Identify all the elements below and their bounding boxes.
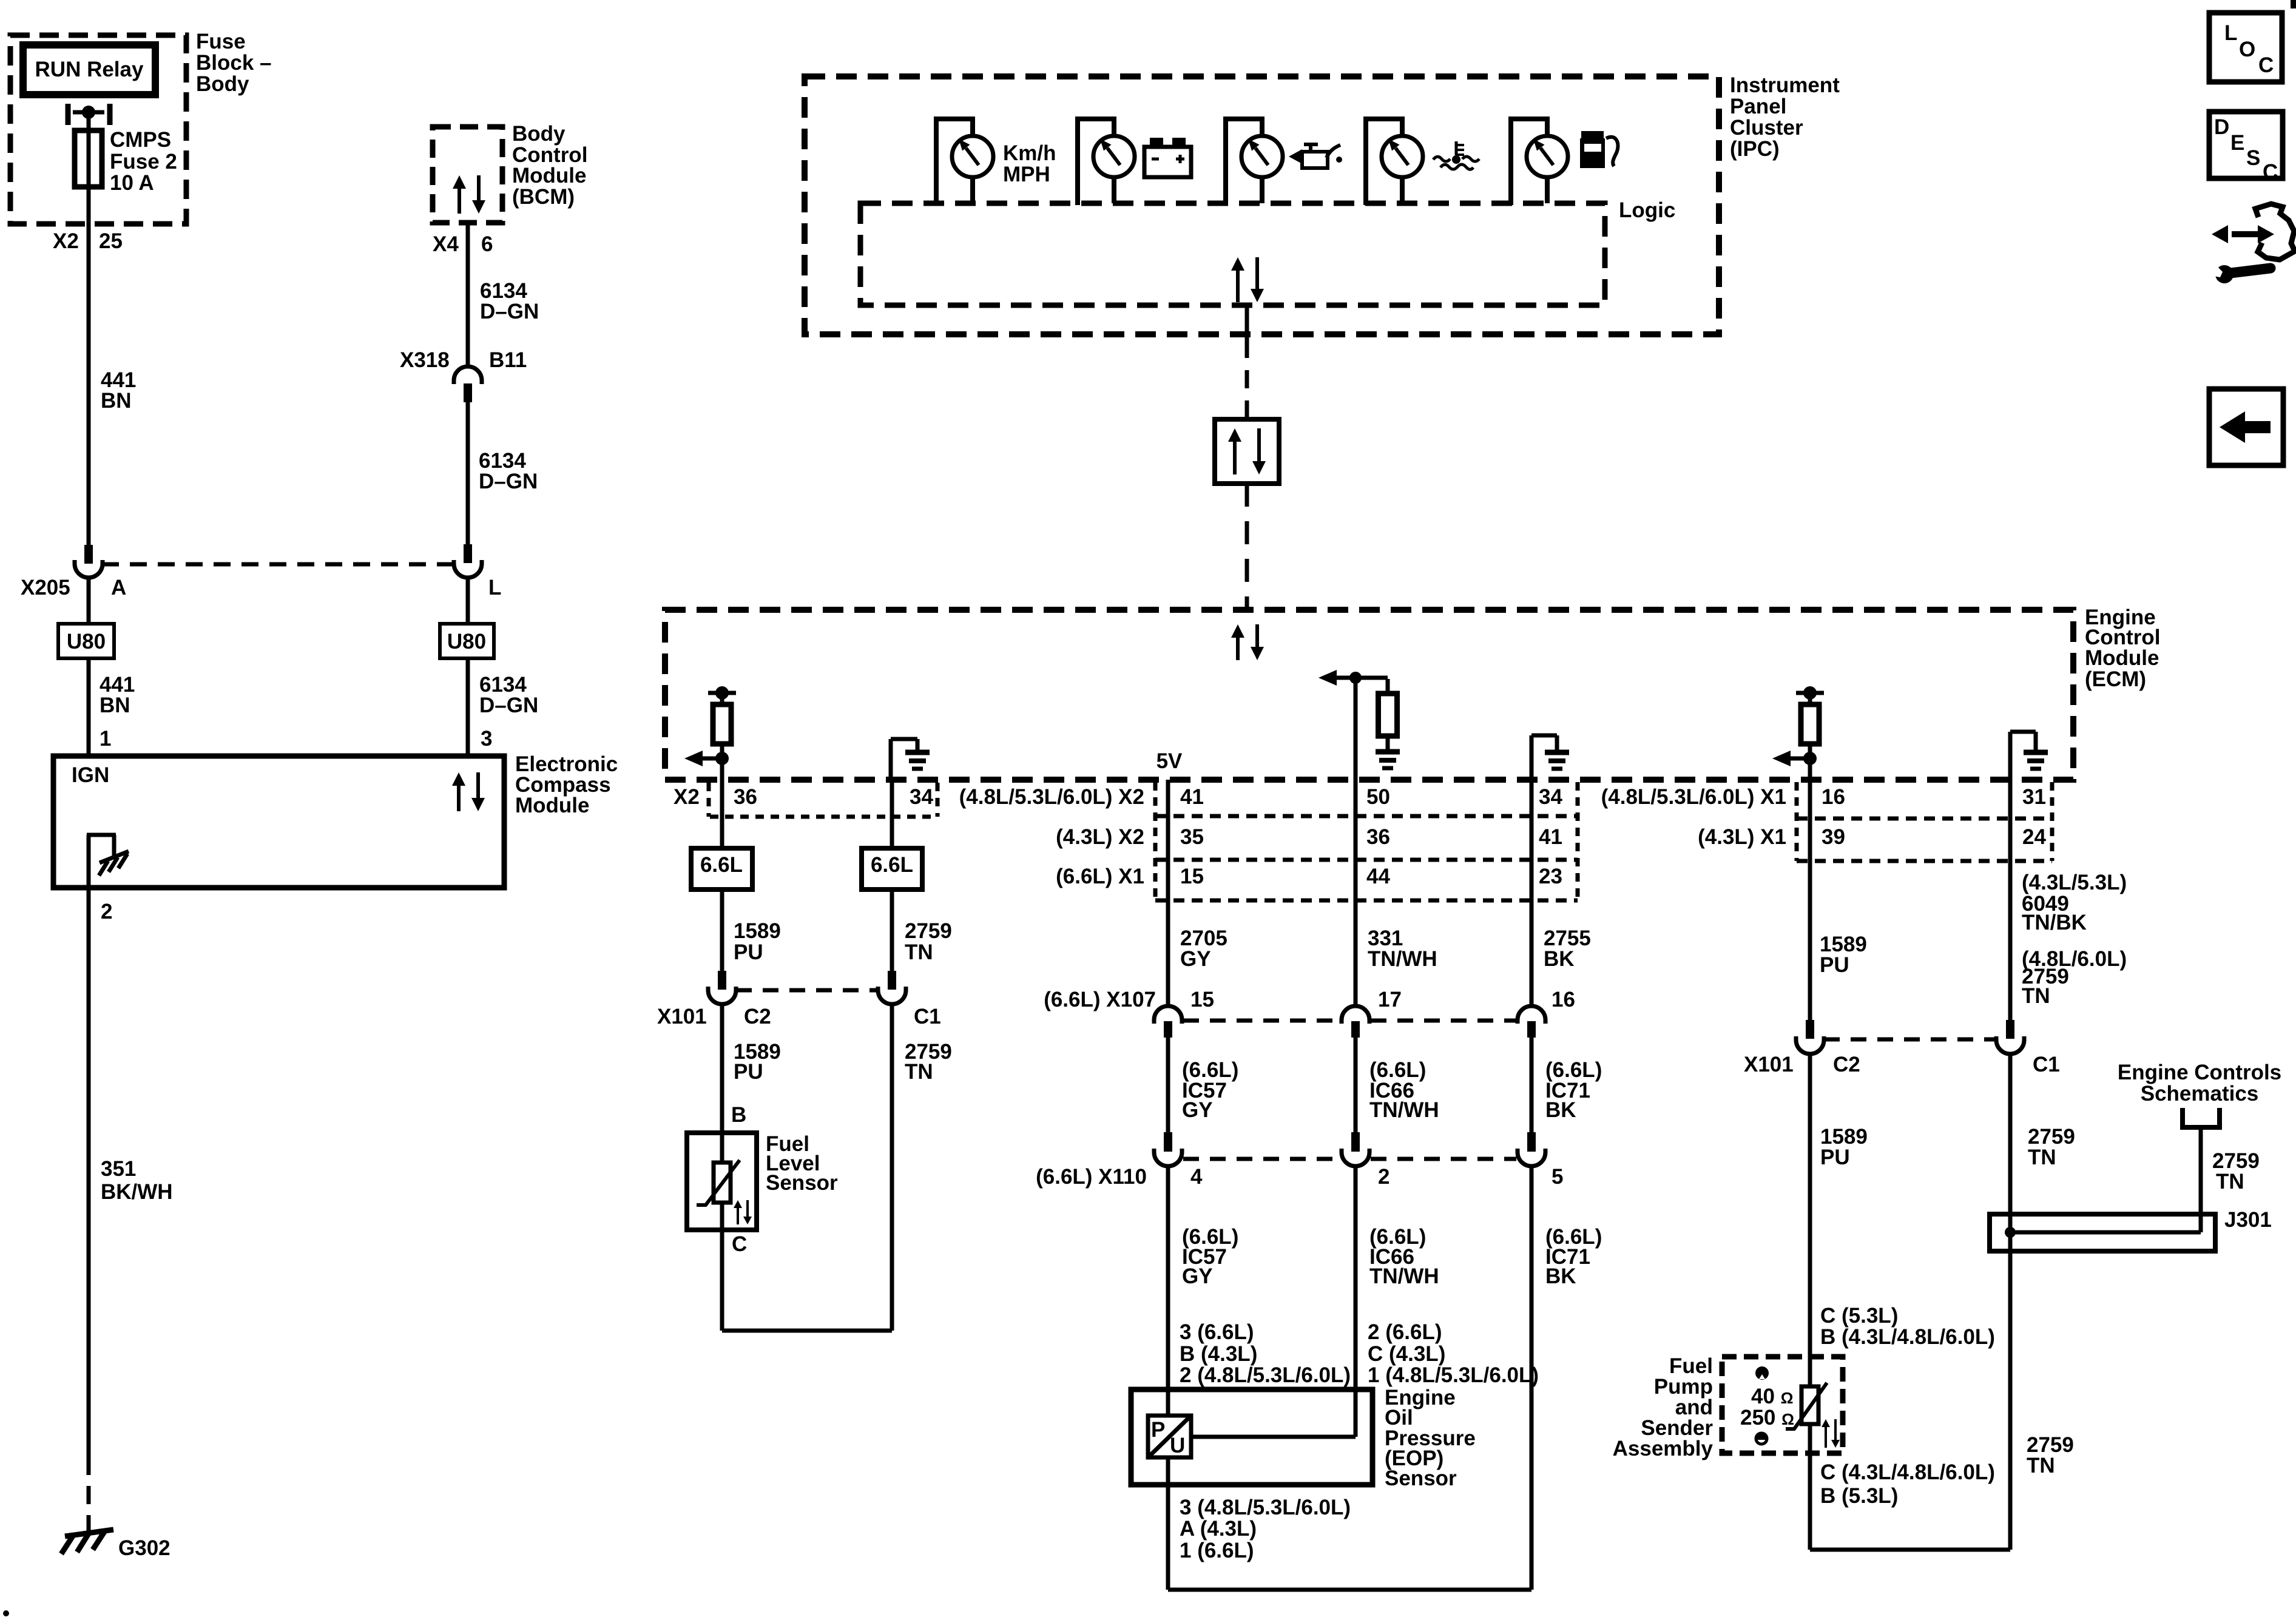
svg-text:C: C bbox=[2263, 160, 2278, 184]
svg-text:GY: GY bbox=[1182, 1098, 1213, 1122]
svg-text:1589: 1589 bbox=[734, 919, 781, 943]
svg-text:B (4.3L/4.8L/6.0L): B (4.3L/4.8L/6.0L) bbox=[1820, 1325, 1995, 1349]
svg-text:PU: PU bbox=[1820, 953, 1849, 977]
svg-text:Block –: Block – bbox=[196, 51, 272, 75]
svg-text:39: 39 bbox=[1822, 825, 1845, 849]
svg-text:35: 35 bbox=[1180, 825, 1204, 849]
svg-text:(4.3L) X2: (4.3L) X2 bbox=[1056, 825, 1144, 849]
svg-text:351: 351 bbox=[101, 1157, 136, 1181]
svg-text:C2: C2 bbox=[744, 1005, 771, 1028]
svg-text:TN: TN bbox=[2022, 984, 2050, 1008]
svg-text:U80: U80 bbox=[67, 630, 106, 653]
svg-text:2: 2 bbox=[101, 900, 112, 923]
svg-text:TN/BK: TN/BK bbox=[2022, 911, 2087, 934]
svg-text:X101: X101 bbox=[657, 1005, 707, 1028]
svg-text:41: 41 bbox=[1539, 825, 1562, 849]
svg-text:2 (4.8L/5.3L/6.0L): 2 (4.8L/5.3L/6.0L) bbox=[1180, 1363, 1351, 1387]
svg-text:Assembly: Assembly bbox=[1613, 1437, 1714, 1460]
svg-text:1 (4.8L/5.3L/6.0L): 1 (4.8L/5.3L/6.0L) bbox=[1368, 1363, 1539, 1387]
svg-text:(6.6L) X107: (6.6L) X107 bbox=[1044, 988, 1156, 1011]
svg-text:BK: BK bbox=[1545, 1098, 1576, 1122]
svg-text:Module: Module bbox=[2085, 646, 2159, 670]
svg-text:X101: X101 bbox=[1744, 1053, 1794, 1076]
svg-text:10 A: 10 A bbox=[110, 171, 154, 195]
svg-text:A: A bbox=[111, 576, 126, 599]
svg-text:TN: TN bbox=[905, 940, 933, 964]
svg-text:MPH: MPH bbox=[1003, 163, 1050, 186]
svg-text:6.6L: 6.6L bbox=[871, 853, 913, 877]
svg-text:BN: BN bbox=[100, 694, 130, 717]
svg-text:16: 16 bbox=[1551, 988, 1575, 1011]
svg-text:41: 41 bbox=[1180, 785, 1204, 809]
svg-text:36: 36 bbox=[1366, 825, 1390, 849]
svg-text:A (4.3L): A (4.3L) bbox=[1180, 1517, 1257, 1541]
svg-text:O: O bbox=[2239, 38, 2255, 61]
svg-text:TN/WH: TN/WH bbox=[1369, 1098, 1439, 1122]
svg-text:S: S bbox=[2246, 146, 2260, 170]
svg-text:Logic: Logic bbox=[1619, 198, 1675, 222]
svg-text:C (4.3L): C (4.3L) bbox=[1368, 1342, 1445, 1366]
svg-text:C (5.3L): C (5.3L) bbox=[1820, 1304, 1898, 1328]
svg-text:Fuse: Fuse bbox=[196, 30, 246, 53]
svg-text:2: 2 bbox=[1378, 1165, 1389, 1189]
svg-text:BK/WH: BK/WH bbox=[101, 1180, 173, 1204]
svg-text:Body: Body bbox=[196, 72, 249, 96]
svg-text:15: 15 bbox=[1190, 988, 1214, 1011]
svg-text:RUN Relay: RUN Relay bbox=[35, 58, 144, 81]
svg-text:1 (6.6L): 1 (6.6L) bbox=[1180, 1539, 1254, 1562]
svg-text:D–GN: D–GN bbox=[479, 470, 538, 493]
svg-text:(ECM): (ECM) bbox=[2085, 667, 2146, 691]
svg-text:L: L bbox=[2224, 21, 2237, 45]
svg-text:PU: PU bbox=[734, 940, 763, 964]
svg-text:(6.6L) X110: (6.6L) X110 bbox=[1036, 1165, 1147, 1189]
svg-text:L: L bbox=[488, 576, 501, 599]
svg-text:15: 15 bbox=[1180, 865, 1204, 888]
svg-text:5: 5 bbox=[1551, 1165, 1563, 1189]
svg-text:Sensor: Sensor bbox=[1385, 1467, 1457, 1490]
svg-text:PU: PU bbox=[1820, 1146, 1850, 1169]
svg-text:C: C bbox=[2258, 53, 2274, 77]
svg-text:3: 3 bbox=[481, 727, 492, 751]
svg-text:250 Ω: 250 Ω bbox=[1740, 1406, 1794, 1430]
svg-text:(4.3L/5.3L): (4.3L/5.3L) bbox=[2022, 871, 2127, 894]
svg-text:5V: 5V bbox=[1156, 749, 1183, 773]
svg-text:B11: B11 bbox=[489, 348, 527, 372]
svg-text:36: 36 bbox=[734, 785, 757, 809]
svg-text:TN/WH: TN/WH bbox=[1368, 947, 1437, 971]
svg-text:C1: C1 bbox=[2033, 1053, 2060, 1076]
svg-text:GY: GY bbox=[1182, 1264, 1213, 1288]
svg-text:Schematics: Schematics bbox=[2141, 1082, 2259, 1106]
svg-text:(BCM): (BCM) bbox=[512, 185, 575, 209]
svg-text:TN/WH: TN/WH bbox=[1369, 1264, 1439, 1288]
svg-text:Module: Module bbox=[515, 794, 589, 817]
svg-text:GY: GY bbox=[1180, 947, 1211, 971]
svg-text:34: 34 bbox=[1539, 785, 1562, 809]
svg-text:25: 25 bbox=[99, 229, 123, 253]
svg-text:31: 31 bbox=[2022, 785, 2046, 809]
svg-text:TN: TN bbox=[2027, 1454, 2055, 1477]
svg-text:(IPC): (IPC) bbox=[1730, 137, 1780, 161]
svg-text:Body: Body bbox=[512, 122, 566, 146]
svg-text:J301: J301 bbox=[2224, 1208, 2272, 1232]
svg-text:D: D bbox=[2214, 115, 2229, 139]
svg-text:PU: PU bbox=[734, 1060, 763, 1084]
svg-text:TN: TN bbox=[905, 1060, 933, 1084]
svg-text:16: 16 bbox=[1822, 785, 1845, 809]
svg-text:Km/h: Km/h bbox=[1003, 141, 1056, 165]
svg-text:(4.8L/5.3L/6.0L) X1: (4.8L/5.3L/6.0L) X1 bbox=[1601, 785, 1786, 809]
svg-text:2759: 2759 bbox=[905, 919, 952, 943]
svg-text:Sensor: Sensor bbox=[766, 1171, 838, 1195]
svg-text:3 (6.6L): 3 (6.6L) bbox=[1180, 1320, 1254, 1344]
svg-text:Instrument: Instrument bbox=[1730, 73, 1840, 97]
svg-text:23: 23 bbox=[1539, 865, 1562, 888]
svg-text:C1: C1 bbox=[914, 1005, 941, 1028]
svg-text:(6.6L) X1: (6.6L) X1 bbox=[1056, 865, 1144, 888]
svg-text:X2: X2 bbox=[674, 785, 700, 809]
svg-text:IGN: IGN bbox=[72, 763, 109, 787]
svg-text:24: 24 bbox=[2022, 825, 2046, 849]
svg-text:D–GN: D–GN bbox=[479, 694, 538, 717]
svg-text:B: B bbox=[731, 1103, 746, 1127]
svg-text:6: 6 bbox=[481, 232, 493, 256]
svg-text:BN: BN bbox=[101, 389, 132, 413]
svg-text:BK: BK bbox=[1544, 947, 1575, 971]
svg-text:(4.3L) X1: (4.3L) X1 bbox=[1698, 825, 1786, 849]
svg-text:D–GN: D–GN bbox=[480, 300, 539, 323]
svg-text:C: C bbox=[732, 1232, 747, 1256]
svg-text:X4: X4 bbox=[433, 232, 459, 256]
svg-text:U: U bbox=[1170, 1434, 1185, 1457]
svg-text:B (4.3L): B (4.3L) bbox=[1180, 1342, 1257, 1366]
svg-text:Cluster: Cluster bbox=[1730, 116, 1803, 140]
svg-text:Module: Module bbox=[512, 164, 586, 187]
svg-text:3 (4.8L/5.3L/6.0L): 3 (4.8L/5.3L/6.0L) bbox=[1180, 1496, 1351, 1519]
svg-text:BK: BK bbox=[1545, 1264, 1576, 1288]
svg-text:Panel: Panel bbox=[1730, 95, 1786, 118]
svg-text:34: 34 bbox=[910, 785, 933, 809]
svg-text:2 (6.6L): 2 (6.6L) bbox=[1368, 1320, 1442, 1344]
svg-text:50: 50 bbox=[1366, 785, 1390, 809]
svg-text:X205: X205 bbox=[21, 576, 70, 599]
svg-text:Engine Controls: Engine Controls bbox=[2118, 1061, 2281, 1084]
svg-text:X318: X318 bbox=[400, 348, 450, 372]
svg-text:E: E bbox=[2230, 131, 2244, 155]
svg-text:C (4.3L/4.8L/6.0L): C (4.3L/4.8L/6.0L) bbox=[1820, 1460, 1995, 1484]
svg-text:G302: G302 bbox=[118, 1536, 171, 1560]
svg-text:4: 4 bbox=[1190, 1165, 1203, 1189]
svg-text:P: P bbox=[1151, 1418, 1165, 1442]
svg-text:C2: C2 bbox=[1833, 1053, 1860, 1076]
svg-text:1: 1 bbox=[100, 727, 111, 751]
svg-text:TN: TN bbox=[2028, 1146, 2056, 1169]
svg-text:B (5.3L): B (5.3L) bbox=[1820, 1484, 1898, 1508]
svg-text:40 Ω: 40 Ω bbox=[1751, 1385, 1794, 1408]
svg-text:(4.8L/5.3L/6.0L) X2: (4.8L/5.3L/6.0L) X2 bbox=[959, 785, 1144, 809]
svg-text:X2: X2 bbox=[53, 229, 79, 253]
svg-text:U80: U80 bbox=[447, 630, 486, 653]
svg-text:17: 17 bbox=[1378, 988, 1402, 1011]
svg-text:TN: TN bbox=[2216, 1170, 2244, 1193]
svg-text:44: 44 bbox=[1366, 865, 1390, 888]
svg-text:6.6L: 6.6L bbox=[700, 853, 743, 877]
svg-text:Fuse 2: Fuse 2 bbox=[110, 150, 177, 174]
svg-text:CMPS: CMPS bbox=[110, 128, 171, 152]
